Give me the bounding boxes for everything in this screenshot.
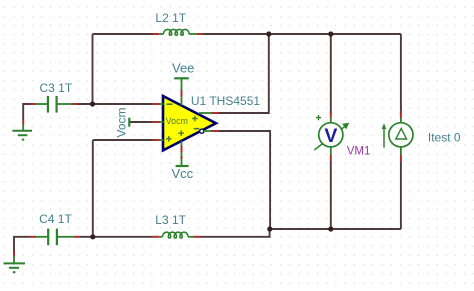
wire bottom L3 to jog — [201, 229, 270, 237]
wire voltmeter bottom — [330, 161, 332, 229]
svg-text:L2 1T: L2 1T — [155, 11, 186, 25]
wire left vertical lower — [92, 140, 94, 237]
svg-text:C3 1T: C3 1T — [40, 81, 73, 95]
svg-text:VM1: VM1 — [347, 145, 371, 157]
wire left vertical upper — [92, 34, 94, 104]
wire bottom C4 to L3 — [80, 236, 152, 238]
minus mark IN- — [167, 103, 173, 105]
wire bottom bus — [270, 228, 401, 230]
node junction OUT+/top bus — [266, 31, 271, 36]
plus mark IN+ — [166, 136, 172, 142]
capacitor C4 — [30, 212, 80, 245]
ground for C4 — [4, 251, 26, 273]
pin OUT+ stub — [199, 112, 212, 114]
inductor L3 — [152, 213, 201, 238]
op-amp U1 THS4551 — [152, 79, 260, 166]
ground for C3 — [12, 120, 32, 140]
pin VOCM stub — [152, 121, 159, 123]
pin IN+ stub — [152, 139, 159, 141]
wire Itest top — [400, 34, 402, 114]
pin IN- stub — [152, 103, 159, 105]
svg-text:U1 THS4551: U1 THS4551 — [191, 94, 260, 108]
node junction OUT-/bottom bus — [267, 226, 272, 231]
pin OUT- bubble and stub — [200, 129, 204, 133]
pin VS bottom stub — [181, 141, 183, 146]
current source Itest — [382, 111, 461, 162]
power Vcc jumper — [171, 166, 193, 181]
minus mark OUT- — [194, 128, 200, 130]
wire voltmeter top — [330, 34, 332, 114]
wire Vocm stem — [130, 121, 153, 123]
node junction VM1/bottom bus — [328, 226, 333, 231]
wire OUT+ to top bus — [219, 34, 269, 113]
node junction VM1/top bus — [328, 31, 333, 36]
power Vee jumper — [172, 60, 194, 78]
plus mark lower mid — [178, 130, 184, 136]
wire bottom left segment — [14, 237, 30, 251]
plus mark OUT+ — [192, 116, 198, 122]
input Vocm jumper — [114, 107, 129, 137]
svg-text:C4 1T: C4 1T — [39, 212, 72, 226]
wire top bus left segment — [93, 33, 153, 35]
pin VS top stub — [181, 79, 183, 91]
node junction C3/IN- — [90, 101, 95, 106]
wire OUT- to bottom bus — [219, 131, 271, 229]
svg-text:Vcc: Vcc — [171, 166, 193, 181]
svg-text:Itest 0: Itest 0 — [428, 131, 461, 145]
wire top bus right segment — [204, 33, 401, 35]
svg-text:Vocm: Vocm — [114, 107, 128, 137]
svg-text:Vocm: Vocm — [166, 116, 188, 126]
wire non-inverting input — [93, 139, 153, 141]
svg-text:L3 1T: L3 1T — [155, 213, 186, 227]
svg-text:Vee: Vee — [172, 60, 194, 75]
wire Itest bottom — [400, 161, 402, 229]
node junction C4/IN+ — [90, 234, 95, 239]
wire inverting input — [78, 103, 153, 105]
svg-text:V: V — [324, 125, 337, 147]
wire C3 left lead to ground — [23, 104, 29, 120]
inductor L2 — [152, 11, 204, 35]
voltmeter VM1 — [314, 111, 370, 162]
capacitor C3 — [29, 81, 78, 113]
